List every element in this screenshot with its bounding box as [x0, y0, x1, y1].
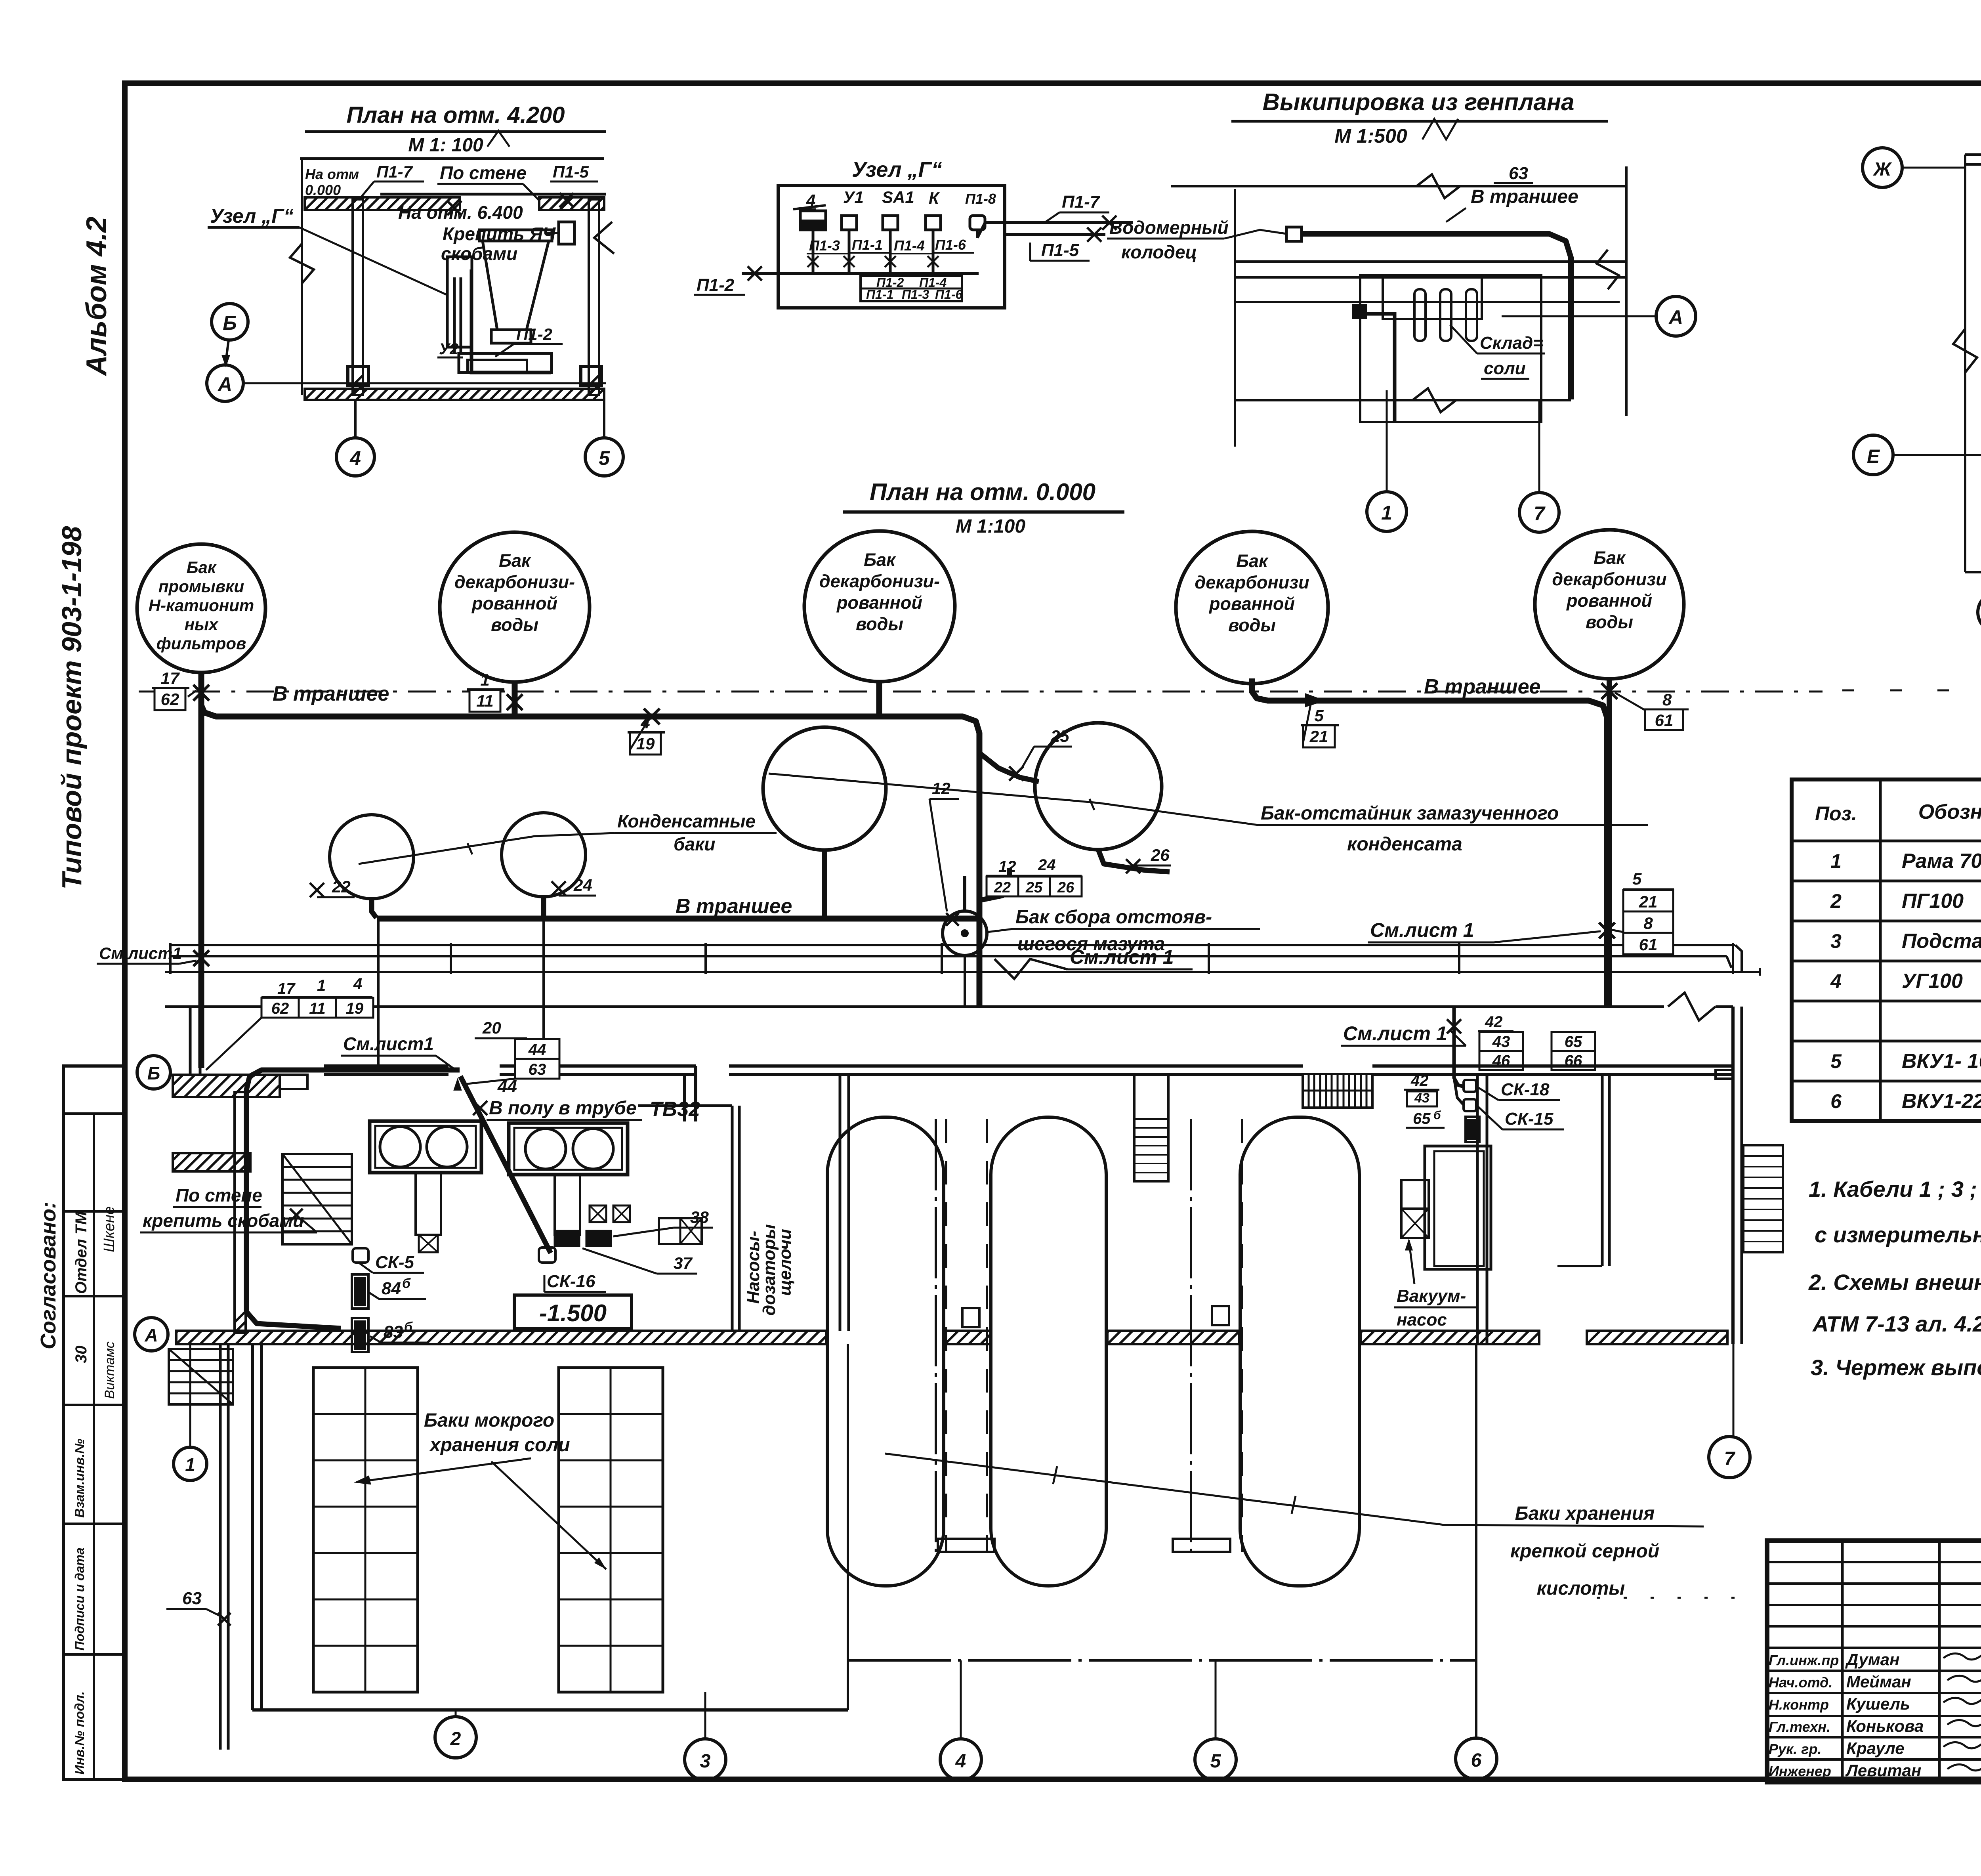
device СК-18: [1464, 1080, 1476, 1092]
road line 3: [1235, 301, 1620, 303]
svg-text:1: 1: [1830, 850, 1842, 872]
svg-text:ВКУ1-22: ВКУ1-22: [1902, 1090, 1981, 1113]
svg-text:5: 5: [1210, 1751, 1221, 1772]
svg-text:П1-1: П1-1: [866, 287, 893, 302]
svg-text:4: 4: [955, 1751, 966, 1772]
svg-text:63: 63: [1509, 164, 1528, 183]
plat bottom line: [1965, 571, 1981, 573]
svg-text:Бак: Бак: [864, 550, 896, 570]
pump unit 1 pedestal: [416, 1173, 441, 1235]
cable: C2 drop: [512, 682, 518, 716]
svg-text:Бак сбора отстояв-: Бак сбора отстояв-: [1015, 907, 1212, 928]
svg-text:А: А: [1668, 306, 1683, 329]
svg-text:скобами: скобами: [441, 243, 517, 264]
cable 63 to trench: [1302, 234, 1571, 399]
svg-text:17: 17: [277, 980, 296, 997]
svg-text:Бак-отстайник замазученного: Бак-отстайник замазученного: [1261, 803, 1559, 824]
svg-text:декарбонизи: декарбонизи: [1552, 569, 1666, 589]
bottom callout grid: [861, 276, 962, 301]
svg-text:б: б: [404, 1320, 413, 1335]
svg-text:воды: воды: [1228, 615, 1276, 635]
svg-text:4: 4: [353, 975, 362, 993]
svg-text:12: 12: [932, 779, 950, 798]
svg-text:СК-5: СК-5: [375, 1253, 414, 1272]
device SA1: [883, 216, 898, 230]
svg-text:Склад=: Склад=: [1480, 333, 1543, 353]
svg-text:26: 26: [1151, 846, 1170, 864]
svg-text:37: 37: [674, 1254, 693, 1272]
svg-text:П1-8: П1-8: [965, 191, 996, 207]
wall base left: [348, 367, 368, 386]
acid room boundary: [847, 1344, 849, 1710]
svg-text:7: 7: [1534, 502, 1546, 525]
title block outer: [1767, 1541, 1981, 1782]
axis circle А (left): [207, 365, 243, 401]
Г wall: [1601, 1075, 1604, 1266]
svg-text:крепить скобами: крепить скобами: [143, 1210, 304, 1231]
svg-text:А: А: [217, 373, 232, 395]
svg-text:Шкене: Шкене: [101, 1206, 118, 1252]
svg-text:25: 25: [1025, 879, 1043, 896]
svg-text:П1-1: П1-1: [852, 237, 883, 253]
axis circle Б: [212, 304, 248, 340]
corridor line 2: [170, 955, 1727, 957]
clamp device right: [559, 222, 574, 244]
cable: main trench line left: [201, 705, 979, 868]
svg-text:-1.500: -1.500: [539, 1300, 607, 1326]
corridor verticals: [169, 943, 172, 974]
svg-text:соли: соли: [1484, 359, 1526, 378]
axis circle 5: [585, 438, 623, 476]
svg-text:М 1:100: М 1:100: [956, 516, 1025, 537]
leader through tanks: [359, 833, 615, 864]
svg-text:декарбонизи-: декарбонизи-: [819, 571, 940, 591]
svg-text:5: 5: [1314, 706, 1324, 725]
svg-text:В полу в трубе: В полу в трубе: [489, 1098, 637, 1119]
bus line П1-2: [742, 272, 979, 275]
svg-text:Альбом 4.2: Альбом 4.2: [81, 217, 113, 376]
cable: mazut bottom run: [377, 916, 979, 922]
svg-text:2: 2: [450, 1729, 461, 1750]
axis circle 1 main: [174, 1447, 207, 1481]
svg-text:колодец: колодец: [1121, 242, 1197, 262]
svg-text:В траншее: В траншее: [1424, 675, 1540, 698]
arrow Б to А: [226, 340, 229, 361]
svg-text:Инв.№ подл.: Инв.№ подл.: [72, 1691, 87, 1775]
tank circle C3: [804, 531, 955, 682]
salt tank grid 1: [313, 1368, 418, 1692]
svg-text:Инженер: Инженер: [1769, 1763, 1831, 1779]
svg-text:63: 63: [529, 1061, 546, 1078]
cable: mazut B to main: [979, 753, 1039, 781]
cable: C3 drop: [876, 682, 882, 716]
acid tank T3: [1240, 1117, 1359, 1586]
X box near vacuum: [1401, 1209, 1429, 1238]
svg-text:Н.контр: Н.контр: [1769, 1696, 1829, 1713]
right rooms walls: [1731, 1007, 1735, 1344]
cable: mazut A drop: [822, 850, 827, 919]
svg-text:Бак: Бак: [187, 558, 217, 577]
svg-text:30: 30: [73, 1346, 90, 1364]
svg-text:АТМ 7-13 ал. 4.2 .: АТМ 7-13 ал. 4.2 .: [1812, 1311, 1981, 1336]
svg-text:Левитан: Левитан: [1845, 1761, 1921, 1780]
acid room west wall upper: [839, 1075, 842, 1331]
svg-text:П1-7: П1-7: [1062, 192, 1101, 212]
svg-text:24: 24: [573, 876, 592, 894]
svg-text:конденсата: конденсата: [1347, 834, 1462, 855]
X at C5: [1601, 683, 1617, 699]
device СК-15: [1464, 1099, 1476, 1111]
cable 63 down: [219, 1344, 222, 1750]
svg-text:7: 7: [1724, 1448, 1736, 1469]
svg-text:П1-2: П1-2: [697, 275, 735, 295]
svg-text:К: К: [929, 189, 940, 207]
wall device box: [447, 257, 472, 347]
svg-text:Б: Б: [147, 1063, 160, 1083]
pump unit 2 pedestal: [555, 1175, 580, 1235]
svg-text:26: 26: [1057, 879, 1074, 896]
svg-text:ТВ32: ТВ32: [650, 1098, 700, 1121]
svg-text:Подставка ДСС: Подставка ДСС: [1902, 930, 1981, 953]
axis circle 4: [336, 438, 374, 476]
right wall break mark: [594, 222, 614, 254]
svg-text:П1-2: П1-2: [516, 325, 552, 344]
X at C1 riser: [193, 685, 209, 701]
svg-text:кислоты: кислоты: [1537, 1578, 1625, 1599]
tank circle C5: [1535, 530, 1684, 679]
axis circle 5 main: [1195, 1739, 1236, 1780]
mazut settling tank A: [763, 727, 886, 850]
right dimension line: [1625, 166, 1628, 416]
svg-text:П1-3: П1-3: [809, 237, 840, 254]
svg-text:3: 3: [1830, 930, 1842, 952]
site plan left boundary: [1234, 189, 1236, 447]
salt warehouse pipe: [1358, 314, 1395, 421]
svg-text:УГ100: УГ100: [1902, 970, 1963, 993]
riser pipe: [453, 277, 456, 353]
small tank stem: [963, 876, 966, 911]
svg-text:П1-6: П1-6: [935, 287, 962, 302]
svg-text:М 1:500: М 1:500: [1334, 125, 1407, 147]
svg-text:П1-6: П1-6: [935, 237, 966, 253]
site top line: [1171, 185, 1626, 187]
cable 44 diagonal: [460, 1076, 551, 1253]
bund wall dashed T2: [986, 1119, 988, 1552]
X 22: [310, 883, 324, 897]
svg-text:24: 24: [1038, 856, 1056, 874]
stairs hanging between T2 T3: [1133, 1075, 1136, 1181]
svg-text:См.лист 1: См.лист 1: [1370, 919, 1474, 941]
device 65b: [1466, 1117, 1479, 1142]
svg-text:6: 6: [1830, 1090, 1842, 1112]
corner grid block: [169, 1349, 233, 1404]
svg-text:Кушель: Кушель: [1846, 1695, 1910, 1713]
dash-dot utility line: [139, 691, 1823, 693]
device 83б: [352, 1318, 368, 1352]
thin risers to building: [377, 919, 380, 1066]
axis circle 1 genplan: [1367, 492, 1407, 531]
left stamp strip: [63, 1066, 124, 1779]
X 24: [552, 881, 566, 896]
svg-text:ВКУ1- 16: ВКУ1- 16: [1902, 1050, 1981, 1073]
svg-text:19: 19: [346, 1000, 364, 1017]
axis circle 7 genplan: [1519, 493, 1559, 532]
svg-text:Баки хранения: Баки хранения: [1515, 1503, 1655, 1524]
svg-text:1: 1: [480, 671, 489, 689]
bund bottom stubs: [938, 1539, 994, 1552]
svg-text:декарбонизи-: декарбонизи-: [454, 572, 575, 592]
output wires right: [985, 221, 1133, 224]
cable: mazut B drop: [1098, 850, 1170, 872]
salt tank grid 2: [559, 1368, 663, 1692]
svg-text:Е: Е: [1867, 446, 1880, 467]
svg-text:2. Схемы внешних проводок: 2. Схемы внешних проводок см. черт. АТМ …: [1808, 1270, 1981, 1295]
svg-text:22: 22: [994, 879, 1011, 896]
X and callout 4/19: [644, 709, 660, 724]
axis circle А main: [135, 1318, 168, 1351]
svg-text:Вакуум-: Вакуум-: [1397, 1286, 1466, 1306]
plat left boundary: [1964, 155, 1966, 572]
svg-text:62: 62: [271, 1000, 289, 1017]
hopper funnel: [479, 230, 552, 241]
svg-text:с измерительными цепями пр: с измерительными цепями проложить отдель…: [1815, 1222, 1981, 1247]
top wall stub NE: [1716, 1070, 1733, 1079]
bund wall dotted T2-T3: [1190, 1119, 1192, 1552]
dosing room wall: [731, 1106, 734, 1331]
device 38 37: [555, 1231, 579, 1246]
leader Узел Г: [300, 227, 448, 295]
plan top chord line: [300, 157, 604, 160]
lower building bottom: [252, 1708, 848, 1712]
condensate tank 2: [502, 813, 586, 897]
svg-text:3: 3: [700, 1751, 711, 1772]
axis circle 2 main: [435, 1717, 476, 1758]
corridor line 1: [170, 944, 1735, 946]
label Баки хранения кислоты: [885, 1454, 1444, 1525]
svg-text:П1-4: П1-4: [894, 237, 925, 254]
svg-text:Ж: Ж: [1872, 159, 1892, 180]
svg-text:65: 65: [1565, 1033, 1582, 1051]
svg-text:4: 4: [806, 191, 815, 210]
svg-text:декарбонизи: декарбонизи: [1195, 572, 1309, 592]
svg-text:воды: воды: [856, 614, 903, 634]
svg-text:П1-5: П1-5: [553, 162, 589, 181]
svg-text:У2: У2: [439, 340, 458, 358]
svg-text:Взам.инв.№: Взам.инв.№: [72, 1439, 87, 1518]
svg-text:Виктамс: Виктамс: [102, 1341, 117, 1399]
svg-text:Узел „Г“: Узел „Г“: [210, 205, 294, 227]
svg-text:Типовой проект 903-1-198: Типовой проект 903-1-198: [56, 526, 87, 890]
svg-text:СК-18: СК-18: [1501, 1080, 1550, 1099]
svg-text:3. Чертеж выполнен на осно: 3. Чертеж выполнен на основании черт. ТМ…: [1811, 1355, 1981, 1380]
svg-text:12: 12: [998, 858, 1016, 875]
svg-text:Подписи и дата: Подписи и дата: [73, 1547, 87, 1651]
svg-text:65: 65: [1413, 1110, 1431, 1127]
level mark -1.500: [514, 1295, 632, 1328]
cable: combined riser to wall: [977, 919, 983, 1007]
svg-text:Выкипировка из генплана: Выкипировка из генплана: [1263, 89, 1574, 115]
flow arrow: [1306, 694, 1323, 706]
svg-text:баки: баки: [674, 834, 715, 854]
device СК-5: [353, 1248, 368, 1263]
device К: [926, 216, 941, 230]
X box mid: [659, 1218, 702, 1244]
axis circle Е: [1853, 435, 1893, 475]
svg-text:43: 43: [1414, 1091, 1429, 1106]
axis circle Б main: [137, 1056, 170, 1089]
device П1-8: [970, 216, 985, 230]
cable down west wall: [246, 1070, 460, 1328]
lower building west wall: [251, 1344, 254, 1710]
axis circle 3 main: [685, 1739, 726, 1780]
axis circle 6 main: [1456, 1738, 1497, 1779]
svg-text:6: 6: [1471, 1750, 1482, 1771]
stairs top right block: [1303, 1074, 1372, 1108]
cable 63 square: [1286, 227, 1302, 241]
svg-text:насос: насос: [1397, 1310, 1447, 1330]
svg-text:2: 2: [1830, 890, 1842, 912]
svg-text:Обозначение: Обозначение: [1918, 800, 1981, 823]
tank circle C1: [137, 544, 265, 672]
svg-text:4: 4: [1830, 970, 1842, 992]
X 25: [1009, 766, 1023, 781]
svg-text:62: 62: [161, 690, 179, 709]
svg-text:Думан: Думан: [1845, 1650, 1900, 1669]
svg-text:См.лист1: См.лист1: [343, 1034, 434, 1054]
svg-text:1: 1: [1381, 502, 1392, 524]
site bottom line: [1235, 399, 1571, 401]
svg-text:В траншее: В траншее: [1471, 186, 1578, 207]
left dimension line with break: [301, 159, 303, 395]
svg-text:По стене: По стене: [176, 1185, 262, 1205]
mazut collection tank small: [943, 911, 987, 955]
svg-text:План на отм. 4.200: План на отм. 4.200: [346, 102, 565, 128]
svg-text:25: 25: [1050, 727, 1069, 745]
stairs upper left: [282, 1154, 352, 1244]
svg-text:б: б: [402, 1276, 411, 1291]
plat top double line: [1965, 153, 1981, 156]
node Г box: [778, 185, 1005, 308]
svg-text:42: 42: [1410, 1072, 1429, 1089]
svg-text:Поз.: Поз.: [1815, 802, 1857, 825]
mazut settling tank B: [1035, 723, 1162, 850]
device drop wires: [812, 230, 815, 273]
svg-text:Крауле: Крауле: [1846, 1739, 1905, 1758]
vacuum room walls: [1425, 1146, 1491, 1269]
svg-text:0.000: 0.000: [305, 182, 341, 198]
cable riser СК-18: [1454, 1007, 1464, 1087]
svg-text:8: 8: [1643, 914, 1653, 932]
device У1: [842, 216, 857, 230]
svg-text:рованной: рованной: [836, 592, 922, 613]
wall right of vacuum: [1476, 1075, 1479, 1344]
svg-text:42: 42: [1485, 1013, 1503, 1031]
svg-text:См.лист1: См.лист1: [99, 944, 182, 963]
svg-text:43: 43: [1492, 1033, 1510, 1051]
west end wall of corridor: [189, 1007, 192, 1075]
axis circle 4 main: [940, 1739, 981, 1780]
svg-text:фильтров: фильтров: [156, 634, 246, 653]
svg-text:84: 84: [382, 1279, 401, 1298]
svg-text:5: 5: [1830, 1050, 1842, 1072]
svg-text:5: 5: [599, 447, 610, 469]
axis line A: [243, 382, 606, 384]
svg-text:83: 83: [384, 1322, 403, 1342]
road line 2: [1235, 276, 1626, 279]
svg-text:63: 63: [182, 1589, 202, 1608]
svg-text:Конденсатные: Конденсатные: [617, 811, 756, 831]
svg-text:44: 44: [497, 1077, 517, 1096]
svg-text:Бак: Бак: [499, 550, 531, 571]
lower corridor line: [165, 1005, 1664, 1008]
svg-text:22: 22: [332, 877, 351, 896]
svg-text:21: 21: [1309, 727, 1328, 746]
tank circle C4: [1176, 531, 1328, 684]
axis circle 2 plat: [1978, 592, 1981, 632]
tank circle C2: [440, 532, 590, 682]
axis circle Ж: [1863, 148, 1902, 187]
svg-text:б: б: [1433, 1109, 1441, 1122]
svg-text:В траншее: В траншее: [676, 895, 792, 918]
svg-text:1: 1: [317, 977, 326, 994]
svg-text:ПГ100: ПГ100: [1902, 890, 1964, 913]
svg-text:П1-7: П1-7: [376, 162, 413, 181]
salt warehouse columns: [1414, 289, 1426, 341]
parts table: [1792, 779, 1981, 1121]
svg-text:1: 1: [185, 1454, 195, 1475]
corridor end corner: [1735, 945, 1742, 972]
cable: C4 to C5 trench: [1252, 678, 1607, 1007]
svg-text:рованной: рованной: [1566, 590, 1652, 611]
svg-text:На отм: На отм: [305, 166, 359, 182]
svg-text:Н-катионит: Н-катионит: [149, 596, 254, 615]
road line 1: [1235, 260, 1626, 263]
svg-text:ных: ных: [185, 615, 219, 634]
svg-text:Конькова: Конькова: [1846, 1717, 1924, 1735]
svg-text:щелочи: щелочи: [775, 1229, 795, 1296]
svg-text:СК-16: СК-16: [547, 1272, 595, 1291]
svg-text:44: 44: [528, 1041, 546, 1058]
X boxes under unit2: [590, 1205, 606, 1222]
svg-text:Узел „Г“: Узел „Г“: [852, 158, 942, 181]
leader through mazut tanks: [769, 774, 1258, 825]
svg-text:Крепить ЯЧ: Крепить ЯЧ: [443, 224, 556, 244]
pump unit 2: [509, 1123, 628, 1175]
device 4: [800, 211, 826, 230]
top wall edge line: [380, 193, 606, 196]
wall base right: [581, 367, 601, 386]
pump unit 1: [370, 1121, 481, 1173]
svg-text:Б: Б: [223, 312, 237, 334]
svg-text:20: 20: [482, 1018, 501, 1037]
svg-text:SA1: SA1: [882, 188, 914, 206]
svg-text:По стене: По стене: [440, 162, 527, 183]
svg-text:4: 4: [349, 447, 361, 469]
svg-text:Бак: Бак: [1236, 551, 1269, 571]
corridor line 3: [165, 971, 1760, 973]
svg-text:1. Кабели 1 ; 3 ; 4 ; 5 ; 7: 1. Кабели 1 ; 3 ; 4 ; 5 ; 7 ; 8 ; 9 ; 12…: [1809, 1177, 1981, 1202]
svg-text:Бак: Бак: [1594, 548, 1626, 568]
salt warehouse building: [1360, 275, 1541, 422]
svg-text:рованной: рованной: [471, 593, 557, 613]
svg-text:П1-3: П1-3: [902, 287, 929, 302]
svg-text:У1: У1: [843, 188, 864, 206]
svg-text:Мейман: Мейман: [1846, 1672, 1911, 1691]
svg-text:11: 11: [309, 1000, 326, 1017]
svg-text:8: 8: [1662, 690, 1672, 709]
svg-text:Нач.отд.: Нач.отд.: [1769, 1674, 1832, 1691]
svg-text:воды: воды: [491, 615, 538, 635]
